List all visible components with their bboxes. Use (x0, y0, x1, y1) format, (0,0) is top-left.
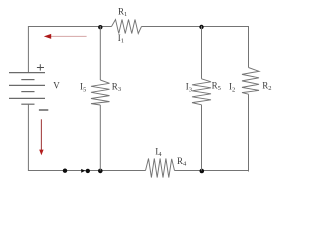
middle branch wire bottom (99, 105, 101, 171)
node: top of middle branch (98, 25, 102, 29)
right branch wire top (248, 26, 250, 68)
wire left top: corner to battery (27, 26, 29, 73)
svg-text:R2: R2 (262, 81, 271, 93)
node: bottom of middle branch (98, 169, 103, 174)
battery long plate 2 (9, 84, 45, 86)
battery long plate 1 (9, 72, 45, 74)
wire top left segment (28, 26, 111, 28)
R5 branch wire top (201, 26, 203, 79)
R5 branch wire bottom (201, 105, 203, 171)
battery short plate 1 (21, 79, 34, 81)
svg-text:R1: R1 (118, 7, 127, 19)
current arrowhead on bottom wire (81, 169, 85, 173)
node: top of R5 branch (199, 25, 203, 29)
resistor R2 (242, 68, 259, 95)
resistor R4 (146, 159, 175, 178)
svg-text:I2: I2 (229, 82, 235, 94)
red current arrow left (pointing down) (39, 119, 43, 155)
wire left bottom: battery to corner (28, 104, 63, 170)
resistor R5 (192, 79, 211, 105)
minus sign (39, 109, 48, 111)
svg-text:I5: I5 (80, 82, 86, 94)
svg-text:I3: I3 (186, 82, 192, 94)
resistor R3 (91, 80, 110, 105)
svg-text:R4: R4 (177, 156, 187, 168)
node: bottom of R5 branch (200, 169, 205, 174)
middle branch wire top (99, 26, 101, 80)
plus sign (37, 64, 44, 70)
svg-text:R5: R5 (212, 81, 221, 93)
battery long plate 3 (9, 97, 45, 99)
red current arrow top (pointing left) (44, 34, 87, 39)
wire bottom right section (175, 170, 249, 172)
svg-text:V: V (53, 81, 60, 91)
wire top right segment (142, 26, 249, 28)
right branch wire bottom (247, 94, 250, 171)
svg-text:I1: I1 (118, 33, 124, 45)
resistor R1 (112, 20, 142, 34)
node on bottom wire (63, 169, 67, 173)
battery short plate 2 (21, 91, 34, 93)
node on bottom wire 2 (86, 169, 90, 173)
wire bottom left section (62, 170, 146, 172)
svg-text:R3: R3 (112, 82, 121, 94)
svg-text:I4: I4 (155, 146, 162, 158)
battery short plate 3 negative terminal (21, 103, 34, 105)
